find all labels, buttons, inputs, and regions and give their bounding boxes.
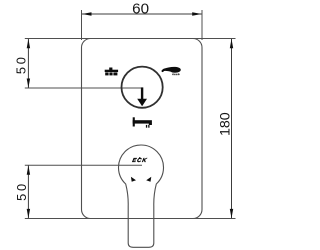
svg-text:50: 50: [14, 54, 29, 74]
icon: hand shower (right of knob): [162, 67, 181, 75]
wire: left extension of 60-dim: [81, 10, 83, 40]
svg-text:60: 60: [132, 0, 149, 17]
dimension 60 top: [82, 0, 202, 17]
trim plate outline: [82, 39, 203, 219]
wire: extension to circle center y=88: [25, 87, 141, 89]
dimension 50 upper left: [14, 39, 30, 88]
dimension 50 lower left: [14, 165, 30, 218]
dimension 180 right: [218, 39, 234, 218]
svg-text:50: 50: [14, 181, 29, 201]
handle arrow left: [131, 177, 136, 182]
wire: extension to handle center y=165.3: [25, 164, 142, 166]
handle arrow right: [146, 177, 151, 182]
wire: right extension of 60-dim: [201, 10, 203, 40]
icon: bathtub (below knob): [133, 117, 152, 127]
lever handle outline: [119, 145, 164, 247]
diverter knob circle: [122, 67, 163, 108]
wire: bottom extension line y=218.5: [25, 218, 236, 220]
wire: top extension line y=38.5: [25, 38, 236, 40]
icon: bath filler (left of knob): [105, 68, 118, 76]
down arrow inside knob: [137, 87, 147, 106]
svg-text:180: 180: [218, 112, 234, 136]
